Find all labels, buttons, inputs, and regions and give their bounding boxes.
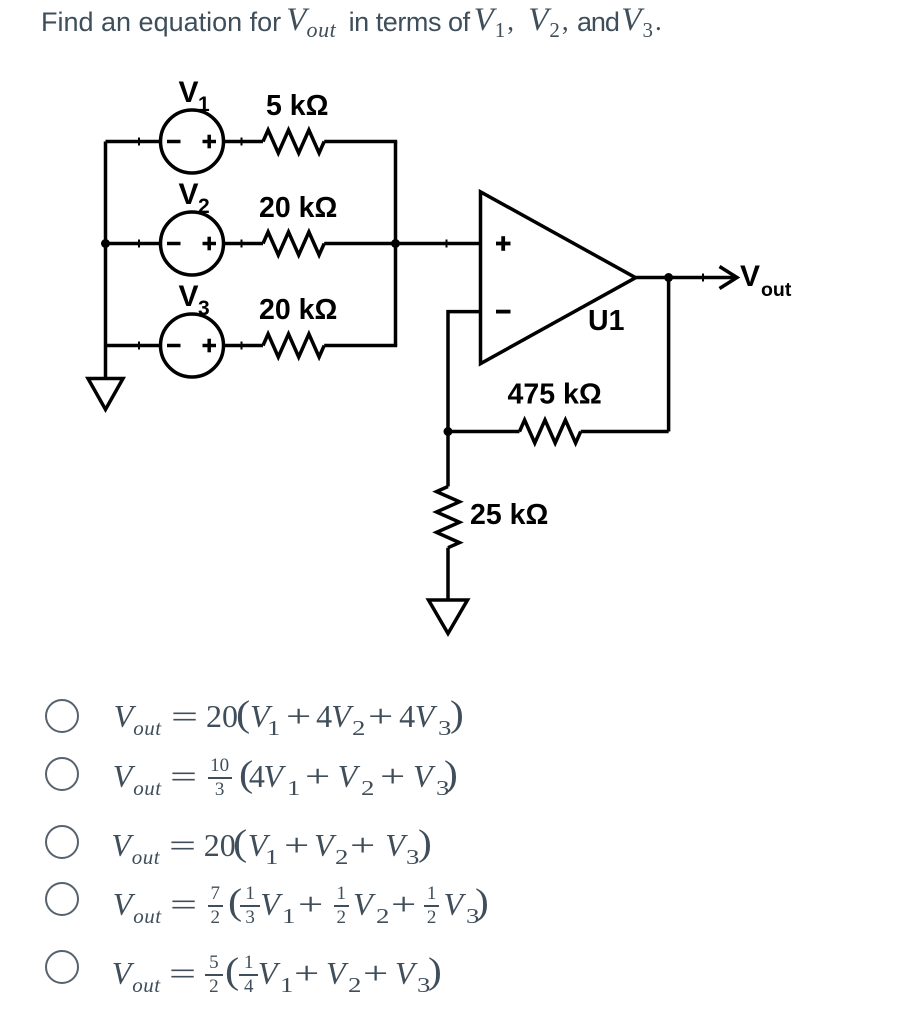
- output wire: [636, 276, 735, 280]
- source V2: [161, 212, 224, 275]
- option 2 radio: [45, 757, 79, 791]
- output arrowhead: [720, 267, 738, 289]
- wire to ground2: [446, 548, 450, 600]
- svg-text:U1: U1: [588, 305, 625, 337]
- pin tick marks: [139, 138, 703, 350]
- wire row3 right: [324, 344, 397, 348]
- ground (bottom): [429, 600, 468, 634]
- inverting input wire: [448, 312, 481, 487]
- right bus wire: [394, 142, 398, 346]
- svg-text:V: V: [179, 76, 199, 109]
- op-amp minus sign: [496, 310, 511, 314]
- wire row3: [106, 344, 264, 348]
- source V1: [161, 110, 224, 173]
- wire row2 right to op-amp: [324, 242, 480, 246]
- wire row1 right: [324, 140, 397, 144]
- svg-text:20 kΩ: 20 kΩ: [259, 192, 337, 224]
- option 3 equation: [0, 825, 905, 877]
- svg-text:V: V: [179, 178, 199, 211]
- option 5 radio: [45, 950, 79, 984]
- resistor 475k zigzag: [520, 420, 581, 443]
- header question text: [0, 0, 905, 48]
- svg-text:1: 1: [198, 93, 210, 116]
- ground (left): [88, 379, 123, 410]
- feedback wire horizontal: [448, 430, 520, 434]
- option 4 equation: [0, 884, 905, 936]
- resistor R3 20k zigzag: [263, 334, 324, 357]
- svg-text:25 kΩ: 25 kΩ: [470, 499, 548, 531]
- svg-text:20 kΩ: 20 kΩ: [259, 294, 337, 326]
- feedback vertical wire: [667, 278, 671, 432]
- option 4 radio: [45, 882, 79, 916]
- left rail wire: [104, 142, 108, 379]
- resistor R2 20k zigzag: [263, 232, 324, 255]
- svg-text:475 kΩ: 475 kΩ: [508, 379, 602, 411]
- option 1 equation: [0, 696, 905, 748]
- svg-text:3: 3: [198, 297, 210, 320]
- wire row1: [106, 140, 264, 144]
- node dot right bus: [391, 239, 400, 248]
- option 1 radio: [45, 699, 79, 733]
- resistor 25k zigzag vertical: [437, 487, 460, 548]
- node dot left rail: [101, 239, 110, 248]
- wire row2: [106, 242, 264, 246]
- svg-text:V: V: [179, 280, 199, 313]
- option 2 equation: [0, 756, 905, 808]
- node dot output: [664, 273, 673, 282]
- option 5 equation: [0, 953, 905, 1005]
- node dot feedback left: [444, 427, 453, 436]
- op-amp U1 triangle: [481, 192, 636, 364]
- op-amp plus sign: [496, 242, 511, 246]
- feedback wire right: [581, 430, 669, 434]
- svg-text:out: out: [761, 279, 792, 301]
- svg-text:5 kΩ: 5 kΩ: [266, 90, 328, 122]
- source V3: [161, 314, 224, 377]
- svg-text:V: V: [740, 260, 760, 293]
- option 3 radio: [45, 825, 79, 859]
- svg-text:2: 2: [198, 195, 210, 218]
- resistor R1 5k zigzag: [263, 130, 324, 153]
